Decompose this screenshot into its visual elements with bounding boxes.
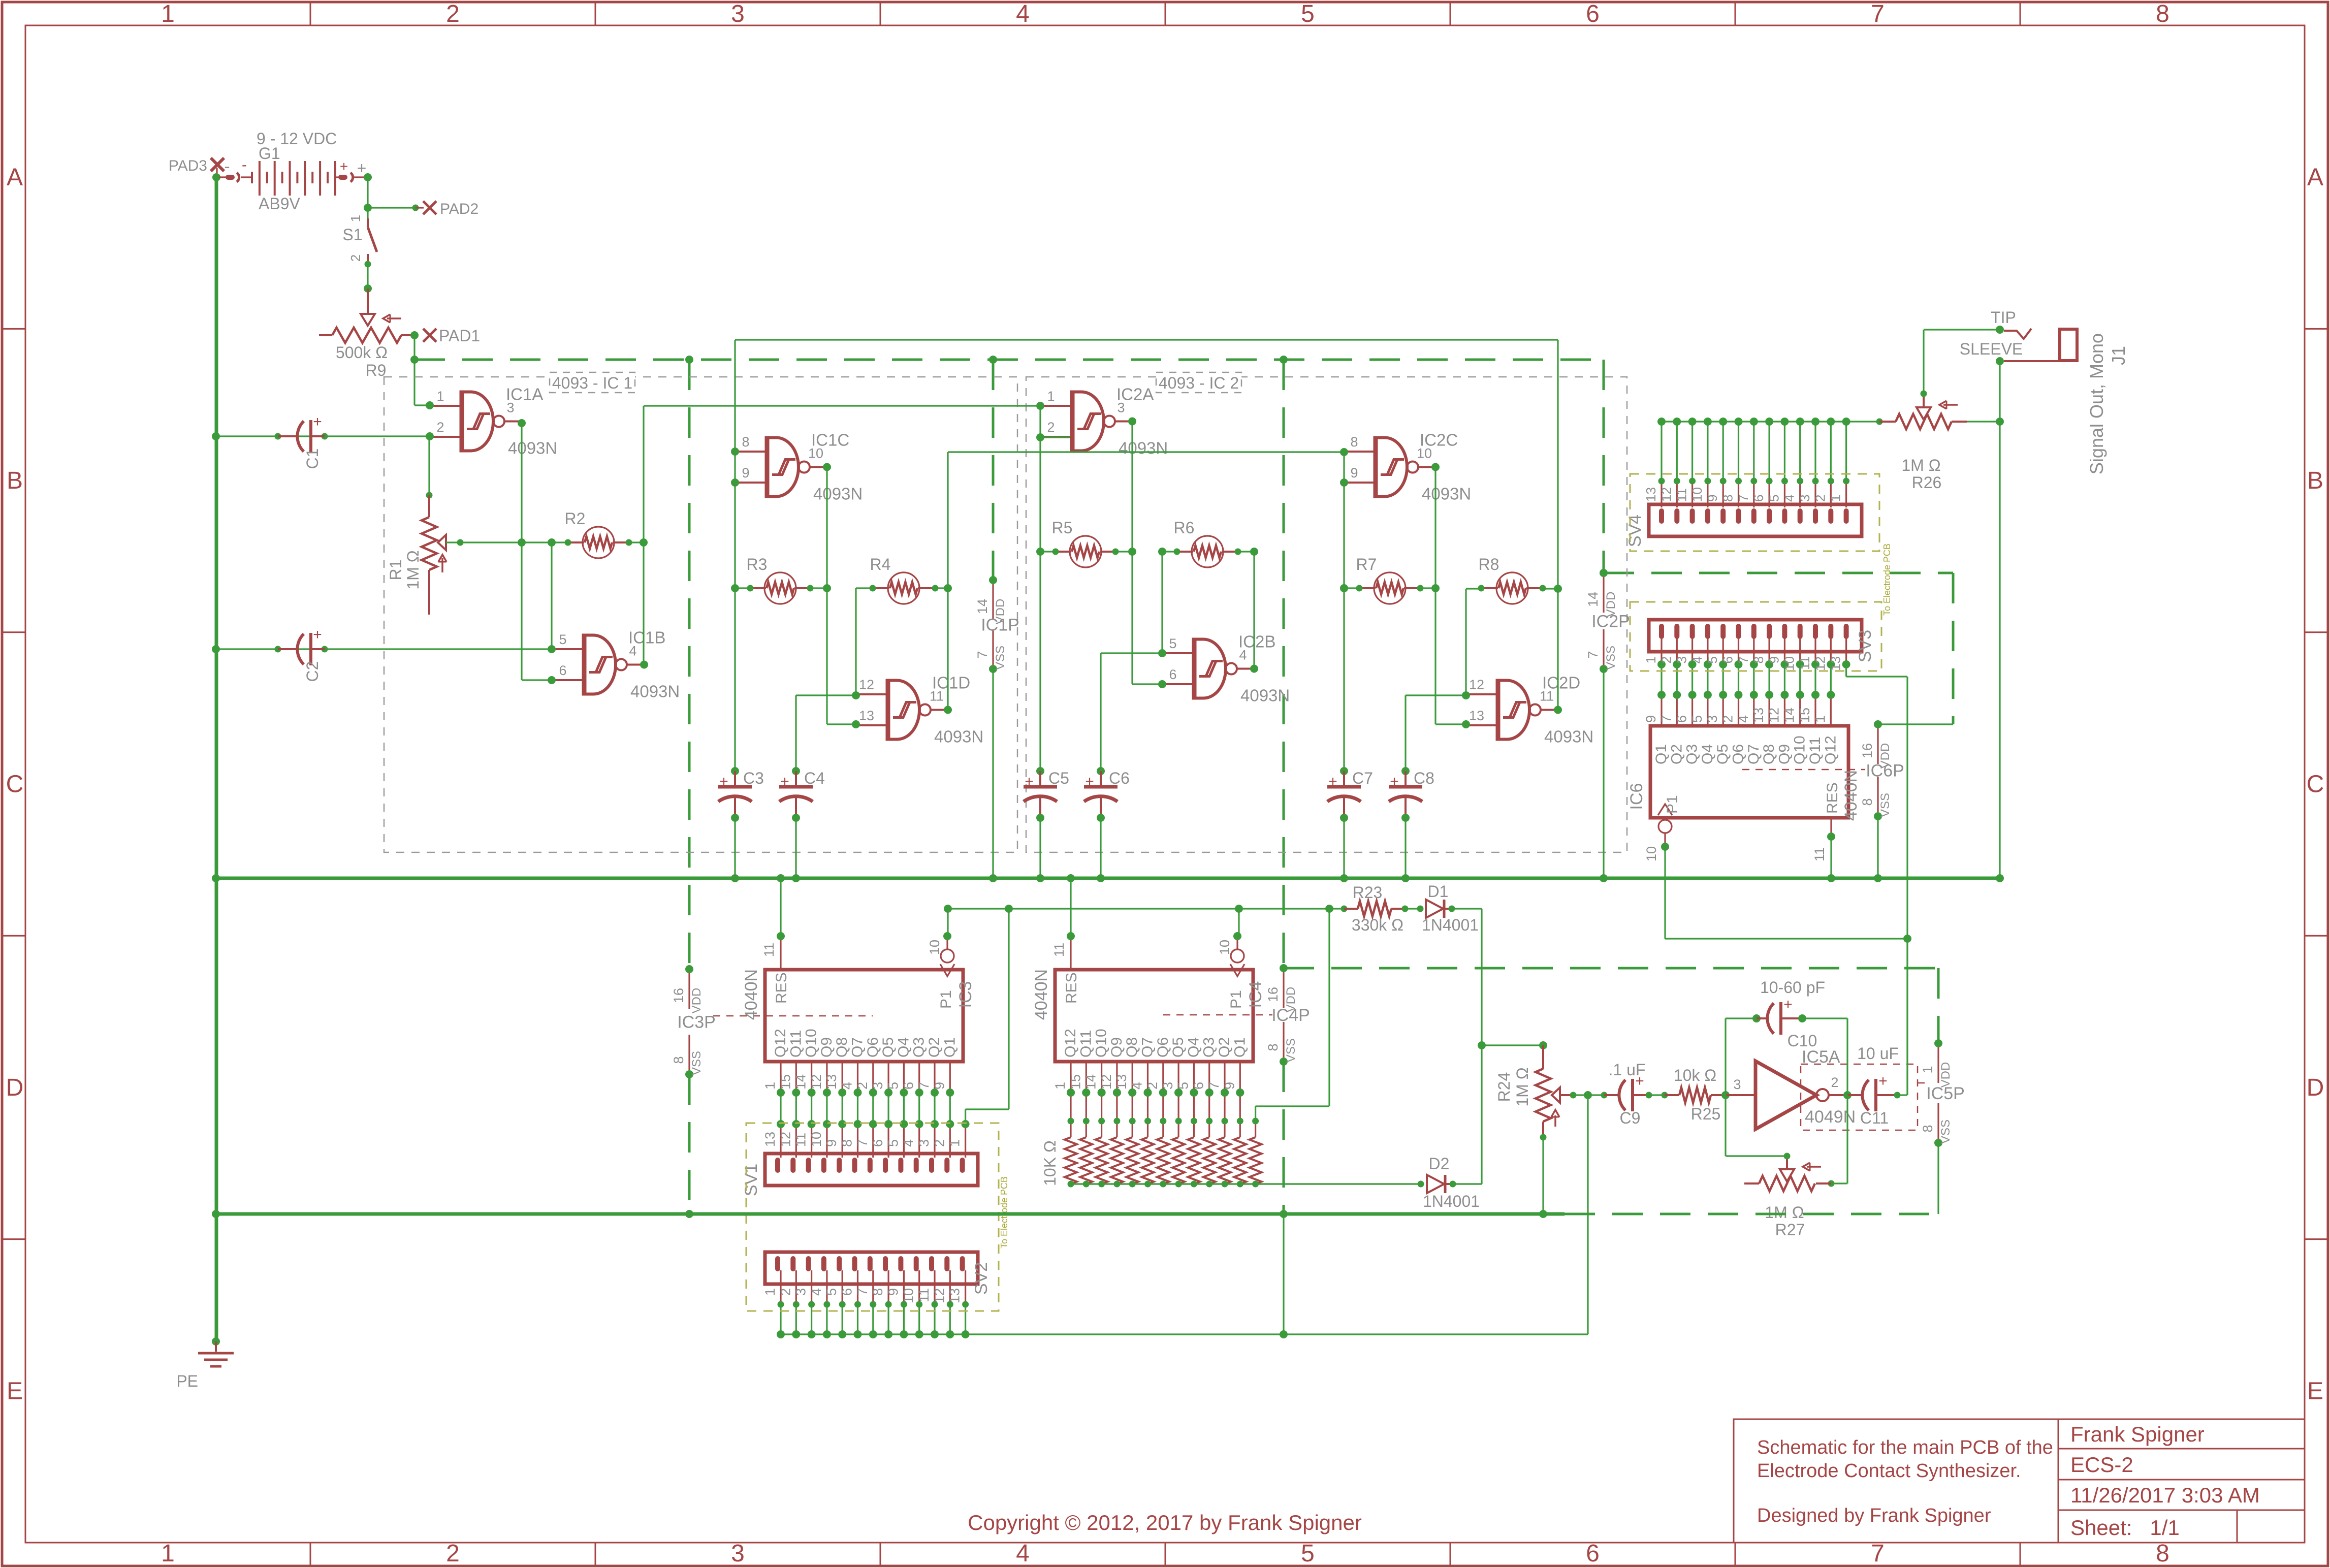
- wire ground rail to PE: [212, 1337, 220, 1346]
- svg-text:C5: C5: [1048, 769, 1069, 787]
- wire IC6P VSS to ground bus: [1877, 816, 1878, 878]
- svg-text:2: 2: [778, 1288, 793, 1296]
- svg-text:-: -: [224, 157, 230, 176]
- wire IC4 pin11 to ground bus: [1070, 878, 1071, 936]
- svg-text:C3: C3: [743, 769, 764, 787]
- svg-text:1: 1: [161, 1540, 175, 1567]
- svg-text:3: 3: [731, 1, 745, 27]
- svg-text:1: 1: [1828, 495, 1843, 502]
- svg-text:500k Ω: 500k Ω: [336, 343, 388, 362]
- svg-text:4040N: 4040N: [1032, 969, 1051, 1020]
- svg-text:4093N: 4093N: [934, 727, 983, 746]
- title block: [1734, 1419, 2305, 1543]
- wire R2 left down to IC1B pin5: [551, 542, 552, 649]
- svg-text:C2: C2: [303, 661, 322, 682]
- svg-text:330k Ω: 330k Ω: [1352, 916, 1403, 934]
- svg-text:IC4: IC4: [1246, 981, 1265, 1008]
- label 4093 - IC 2: [1156, 372, 1241, 393]
- ic IC6 P1 clock pin: [1658, 804, 1672, 815]
- svg-text:R2: R2: [565, 509, 586, 528]
- svg-text:+: +: [340, 158, 348, 174]
- svg-text:1N4001: 1N4001: [1422, 916, 1479, 934]
- svg-text:10: 10: [1689, 487, 1705, 502]
- svg-text:IC1B: IC1B: [628, 628, 665, 647]
- potentiometer R24: [1542, 1045, 1544, 1069]
- wire R7 right rail: [1420, 587, 1435, 589]
- svg-text:1: 1: [762, 1288, 778, 1296]
- svg-text:16: 16: [1860, 743, 1875, 758]
- wire IC4P VSS rail down to SV2 bus: [1283, 1214, 1284, 1334]
- svg-text:Q11: Q11: [1807, 737, 1824, 764]
- svg-text:8: 8: [742, 434, 749, 450]
- ic IC3 pin 10 P1 clock: [946, 936, 948, 949]
- svg-text:Q11: Q11: [787, 1030, 804, 1058]
- svg-text:1M Ω: 1M Ω: [1765, 1203, 1804, 1222]
- capacitor C8: [1401, 767, 1410, 775]
- dashed callout IC6P to IC6: [1742, 769, 1865, 771]
- svg-text:7: 7: [916, 1082, 932, 1090]
- svg-text:6: 6: [1586, 1540, 1600, 1567]
- svg-text:2: 2: [446, 1, 460, 27]
- svg-text:5: 5: [1766, 495, 1781, 502]
- wire VCC dashed bus top: [414, 359, 1604, 361]
- svg-text:2: 2: [446, 1540, 460, 1567]
- svg-text:13: 13: [1469, 708, 1484, 723]
- svg-text:SV4: SV4: [1625, 515, 1645, 547]
- wires SV3 to IC6: [1661, 664, 1662, 695]
- wire R5 right to IC2A out rail: [1115, 551, 1132, 552]
- svg-text:2: 2: [348, 254, 363, 262]
- svg-text:10: 10: [927, 940, 942, 955]
- wire R8 left down to IC2D pin12: [1465, 589, 1466, 695]
- dashed callout IC4P to IC4: [1163, 1014, 1272, 1016]
- svg-text:PAD1: PAD1: [439, 327, 480, 345]
- svg-text:4: 4: [1016, 1540, 1030, 1567]
- svg-text:12: 12: [859, 677, 874, 692]
- wire SV2 bus to R24 wiper node: [781, 1333, 1588, 1335]
- olive dashed box SV4 to electrode PCB: [1630, 474, 1879, 551]
- svg-text:Q6: Q6: [1155, 1037, 1171, 1058]
- svg-text:4: 4: [1016, 1, 1030, 27]
- svg-text:+: +: [1783, 996, 1793, 1013]
- svg-text:P1: P1: [1228, 990, 1244, 1009]
- svg-text:Q7: Q7: [1745, 744, 1762, 764]
- svg-text:9: 9: [1705, 495, 1720, 502]
- svg-text:Q8: Q8: [834, 1037, 850, 1058]
- wire battery plus to switch: [364, 173, 372, 181]
- svg-text:4: 4: [1736, 715, 1751, 723]
- svg-text:10: 10: [1644, 846, 1659, 861]
- connector SV2 body: [765, 1252, 978, 1284]
- svg-text:IC6: IC6: [1627, 783, 1646, 810]
- svg-text:IC2A: IC2A: [1116, 385, 1154, 404]
- svg-text:2: 2: [855, 1082, 870, 1090]
- nand gate IC1C: [765, 436, 770, 498]
- svg-text:R25: R25: [1691, 1105, 1721, 1123]
- svg-text:Q6: Q6: [1730, 744, 1747, 764]
- nand gate IC1A: [460, 391, 464, 453]
- svg-text:5: 5: [1301, 1540, 1315, 1567]
- svg-text:1: 1: [436, 389, 444, 404]
- svg-text:B: B: [2307, 467, 2323, 494]
- wire IC4P VSS to lower bus: [1283, 1062, 1285, 1214]
- svg-text:1N4001: 1N4001: [1423, 1192, 1480, 1210]
- svg-text:E: E: [2307, 1378, 2323, 1404]
- svg-text:6: 6: [901, 1082, 916, 1090]
- svg-text:15: 15: [778, 1074, 793, 1090]
- svg-text:VSS: VSS: [1878, 793, 1892, 817]
- wire 13th resistor riser to clock net: [1328, 909, 1330, 1106]
- svg-text:3: 3: [793, 1288, 809, 1296]
- svg-text:SLEEVE: SLEEVE: [1960, 340, 2023, 358]
- resistor R8: [1496, 572, 1528, 604]
- svg-text:Electrode Contact Synthesizer.: Electrode Contact Synthesizer.: [1757, 1460, 2021, 1482]
- svg-text:1: 1: [1920, 1066, 1935, 1073]
- svg-text:TIP: TIP: [1991, 308, 2016, 327]
- svg-text:5: 5: [1689, 715, 1705, 723]
- wire R2 to IC1B out: [629, 541, 644, 543]
- svg-text:11: 11: [916, 1288, 932, 1302]
- svg-text:8: 8: [840, 1139, 855, 1147]
- svg-text:1: 1: [161, 1, 175, 27]
- svg-text:Q10: Q10: [803, 1029, 820, 1058]
- nand gate IC2D: [1496, 679, 1501, 741]
- svg-text:VSS: VSS: [1284, 1038, 1298, 1063]
- svg-text:Q1: Q1: [1653, 744, 1670, 764]
- svg-text:9: 9: [742, 465, 749, 481]
- svg-text:3: 3: [1797, 495, 1812, 502]
- wire IC5A out down to R27: [1846, 1095, 1848, 1183]
- svg-text:Q4: Q4: [895, 1037, 912, 1058]
- potentiometer R27: [1816, 1182, 1831, 1185]
- svg-text:4: 4: [1130, 1082, 1145, 1090]
- svg-text:Q10: Q10: [1792, 735, 1808, 764]
- wire VCC dashed drop to IC4P: [1280, 356, 1288, 364]
- wire D1 to R24 top: [1452, 908, 1482, 909]
- wire R27 wiper to IC5A pin3 node: [1784, 1153, 1791, 1160]
- svg-text:5: 5: [1175, 1082, 1191, 1090]
- svg-text:7: 7: [975, 651, 990, 658]
- svg-text:13: 13: [1643, 487, 1658, 502]
- svg-text:7: 7: [855, 1139, 870, 1147]
- wire C11 to SV3 pin13 net: [1897, 1094, 1907, 1096]
- svg-text:1M Ω: 1M Ω: [1513, 1067, 1531, 1106]
- svg-text:1: 1: [762, 1082, 778, 1090]
- wire R3 right rail: [810, 587, 827, 589]
- wire R24 wiper to C9: [1570, 1092, 1577, 1099]
- wire SV3 pin13 to riser: [1845, 664, 1847, 677]
- wire switch to R9 wiper: [365, 261, 371, 268]
- nand gate IC1D: [886, 679, 890, 741]
- svg-text:12: 12: [778, 1132, 793, 1147]
- capacitor C4: [792, 767, 800, 775]
- wire IC5P VSS to lower bus: [1937, 1143, 1939, 1214]
- svg-text:E: E: [7, 1378, 23, 1404]
- svg-text:10: 10: [1217, 940, 1232, 955]
- svg-text:9: 9: [1766, 656, 1781, 663]
- wire IC1C out to R3 right / IC1D pin13: [823, 463, 831, 471]
- svg-text:Signal Out, Mono: Signal Out, Mono: [2086, 333, 2107, 474]
- svg-text:3: 3: [870, 1082, 885, 1090]
- ic IC3 4040N body: [765, 970, 963, 1062]
- svg-text:IC4P: IC4P: [1271, 1006, 1310, 1025]
- svg-text:4093N: 4093N: [1240, 686, 1290, 705]
- svg-text:11: 11: [1812, 847, 1827, 861]
- potentiometer R26: [1879, 421, 1896, 423]
- svg-text:4093N: 4093N: [1119, 439, 1168, 458]
- svg-text:Q3: Q3: [911, 1037, 928, 1058]
- wire lower ground bus: [216, 1212, 1565, 1216]
- svg-text:IC3P: IC3P: [677, 1013, 716, 1032]
- resistor R23: [1358, 901, 1391, 916]
- svg-text:+: +: [1878, 1073, 1888, 1090]
- svg-text:8: 8: [1751, 656, 1766, 663]
- svg-text:Sheet: 1/1: Sheet: 1/1: [2070, 1516, 2180, 1540]
- svg-text:C1: C1: [303, 449, 322, 469]
- diode D1: [1405, 908, 1420, 909]
- svg-text:4093N: 4093N: [1422, 485, 1471, 503]
- svg-text:13: 13: [1114, 1074, 1129, 1090]
- svg-text:RES: RES: [773, 972, 790, 1004]
- resistor R5: [1070, 536, 1101, 567]
- svg-text:IC1C: IC1C: [811, 431, 849, 450]
- capacitor C5: [1036, 767, 1044, 775]
- capacitor C10: [1757, 1017, 1767, 1019]
- pad PAD2: [423, 201, 436, 214]
- wire SLEEVE to jack: [1996, 357, 2004, 365]
- svg-text:4093 - IC 1: 4093 - IC 1: [552, 374, 632, 392]
- svg-text:6: 6: [840, 1288, 855, 1296]
- svg-text:J1: J1: [2108, 346, 2129, 365]
- svg-text:R26: R26: [1912, 473, 1942, 492]
- svg-text:C11: C11: [1860, 1109, 1889, 1127]
- svg-text:Q5: Q5: [880, 1037, 897, 1058]
- svg-text:Q2: Q2: [1668, 744, 1685, 764]
- svg-text:10: 10: [809, 1132, 824, 1147]
- capacitor C1: [278, 435, 296, 437]
- ic IC3 bottom pins: [780, 1062, 781, 1093]
- svg-text:13: 13: [859, 708, 874, 723]
- svg-text:C7: C7: [1352, 769, 1373, 787]
- svg-text:IC1P: IC1P: [981, 616, 1019, 635]
- wire C3 to ground bus: [734, 818, 736, 878]
- capacitor C2: [278, 648, 296, 650]
- svg-text:1M Ω: 1M Ω: [404, 550, 422, 589]
- svg-text:A: A: [2307, 164, 2323, 191]
- svg-text:4093 - IC 2: 4093 - IC 2: [1159, 374, 1239, 392]
- svg-text:16: 16: [1265, 987, 1281, 1002]
- power pins IC2P: [1603, 577, 1604, 613]
- wire sleeve rail down to ground bus: [1999, 361, 2000, 878]
- svg-text:ECS-2: ECS-2: [2070, 1453, 2133, 1477]
- nand gate IC2B: [1192, 638, 1197, 700]
- diode D2: [1418, 1181, 1424, 1188]
- svg-text:14: 14: [1083, 1074, 1099, 1090]
- svg-text:R24: R24: [1495, 1072, 1513, 1102]
- svg-text:D1: D1: [1428, 882, 1449, 901]
- wire SV4 bus to R26: [1662, 421, 1879, 422]
- svg-text:R23: R23: [1353, 883, 1383, 902]
- connector SV3 pins: [1661, 637, 1662, 664]
- svg-text:R8: R8: [1479, 555, 1499, 573]
- svg-text:11: 11: [1674, 488, 1689, 502]
- olive dashed box SV3 to electrode PCB: [1630, 602, 1881, 671]
- wire IC1B out up to IC2A pin1: [640, 661, 648, 669]
- svg-text:C4: C4: [804, 769, 825, 787]
- svg-text:IC5P: IC5P: [1926, 1084, 1965, 1103]
- svg-text:R4: R4: [870, 555, 891, 573]
- wire C8 to ground bus: [1405, 818, 1406, 878]
- power pins IC6P: [1877, 728, 1878, 764]
- nand gate IC2A: [1070, 391, 1075, 453]
- svg-text:6: 6: [870, 1139, 885, 1147]
- wire D2 to R24 top riser: [1453, 1183, 1482, 1185]
- potentiometer R1: [426, 401, 434, 409]
- svg-text:+: +: [719, 773, 728, 790]
- svg-text:8: 8: [870, 1288, 885, 1296]
- svg-text:Q4: Q4: [1699, 744, 1716, 764]
- nand gate IC2C: [1374, 436, 1378, 498]
- svg-text:7: 7: [1871, 1, 1885, 27]
- svg-text:4040N: 4040N: [1841, 770, 1861, 821]
- svg-text:12: 12: [1099, 1074, 1114, 1090]
- svg-text:5: 5: [824, 1288, 839, 1296]
- svg-text:RES: RES: [1824, 782, 1841, 814]
- ic IC4 4040N body: [1055, 970, 1253, 1062]
- ic IC6 4040N body: [1650, 726, 1848, 818]
- svg-text:1: 1: [1047, 389, 1055, 404]
- svg-text:P1: P1: [1664, 795, 1681, 814]
- svg-text:IC1D: IC1D: [932, 674, 970, 692]
- wire IC3P VSS to lower bus: [688, 1074, 691, 1214]
- wire VCC dashed drop to IC2P VDD: [1603, 360, 1605, 573]
- svg-text:IC2P: IC2P: [1591, 612, 1630, 631]
- svg-text:9: 9: [1643, 715, 1658, 723]
- svg-text:A: A: [7, 164, 23, 191]
- svg-text:4: 4: [1782, 495, 1797, 502]
- svg-text:IC6P: IC6P: [1866, 761, 1904, 781]
- svg-text:Q4: Q4: [1185, 1037, 1202, 1058]
- svg-text:7: 7: [1736, 495, 1751, 502]
- svg-text:4040N: 4040N: [742, 969, 761, 1020]
- svg-text:Q1: Q1: [941, 1037, 958, 1058]
- svg-text:6: 6: [559, 663, 566, 678]
- wire IC1D out feedback to IC2C input: [944, 706, 952, 714]
- svg-text:To Electrode PCB: To Electrode PCB: [1882, 543, 1892, 616]
- svg-text:10: 10: [901, 1288, 916, 1303]
- jack J1 tip contact: [2004, 329, 2031, 339]
- svg-text:5: 5: [1705, 656, 1720, 663]
- svg-text:3: 3: [1674, 656, 1689, 663]
- svg-text:R7: R7: [1356, 555, 1377, 573]
- svg-text:4093N: 4093N: [813, 485, 863, 503]
- svg-text:3: 3: [731, 1540, 745, 1567]
- svg-text:IC2B: IC2B: [1238, 632, 1275, 651]
- resistor R3: [764, 572, 796, 604]
- label 4093 - IC 1: [550, 372, 635, 393]
- resistor R25: [1665, 1094, 1679, 1096]
- wire IC2D feedback to IC1C input: [1554, 706, 1562, 714]
- wire C6 to IC2B pin5: [1100, 653, 1101, 771]
- ic IC4 pin 10 P1 clock: [1236, 936, 1238, 949]
- svg-text:S1: S1: [342, 226, 362, 244]
- wire lower ground bus dashed part: [1565, 1213, 1938, 1215]
- wire R8 right / IC2D out rail: [1543, 588, 1558, 589]
- svg-text:9: 9: [824, 1139, 839, 1147]
- wire C2 to IC1B pin5: [216, 648, 552, 650]
- svg-text:Q2: Q2: [926, 1037, 943, 1058]
- svg-text:2: 2: [1047, 420, 1055, 435]
- dashed box IC5P power part: [1801, 1064, 1918, 1130]
- svg-text:4093N: 4093N: [1544, 727, 1593, 746]
- svg-text:Q7: Q7: [849, 1037, 866, 1058]
- connector SV2 pins: [780, 1270, 781, 1304]
- wire IC1P VSS to ground bus: [992, 669, 994, 878]
- svg-text:8: 8: [2156, 1540, 2169, 1567]
- connector SV3 body: [1649, 620, 1862, 652]
- svg-text:Q12: Q12: [772, 1029, 789, 1058]
- wire R1 wiper to R2: [446, 541, 522, 543]
- svg-text:C9: C9: [1620, 1109, 1641, 1127]
- svg-text:6: 6: [1751, 495, 1766, 502]
- resistor R7: [1374, 572, 1406, 604]
- svg-text:1: 1: [947, 1139, 963, 1147]
- svg-text:Q9: Q9: [818, 1037, 835, 1058]
- dashed box 4093 IC1 region: [384, 377, 1017, 852]
- svg-text:7: 7: [1658, 715, 1674, 723]
- svg-text:5: 5: [885, 1139, 901, 1147]
- svg-text:7: 7: [1585, 651, 1601, 658]
- svg-text:5: 5: [1301, 1, 1315, 27]
- svg-text:+: +: [1085, 773, 1094, 790]
- wire PAD1 node down to IC1A pin1: [413, 335, 415, 405]
- svg-text:R27: R27: [1775, 1221, 1805, 1239]
- svg-text:3: 3: [916, 1139, 932, 1147]
- svg-text:10K Ω: 10K Ω: [1041, 1140, 1059, 1186]
- svg-text:12: 12: [932, 1288, 947, 1303]
- svg-text:3: 3: [1160, 1082, 1175, 1090]
- svg-text:13: 13: [762, 1132, 778, 1147]
- wire R26 wiper to TIP: [1921, 391, 1927, 397]
- svg-text:11: 11: [793, 1133, 809, 1147]
- svg-text:12: 12: [809, 1074, 824, 1090]
- svg-text:13: 13: [947, 1288, 963, 1303]
- ic IC6 top pins: [1661, 695, 1662, 726]
- svg-text:4093N: 4093N: [508, 439, 557, 458]
- svg-text:6: 6: [1586, 1, 1600, 27]
- wire R3 left rail: [735, 587, 750, 589]
- svg-text:VSS: VSS: [1939, 1119, 1953, 1144]
- wire VCC dashed drop to IC6P VDD: [1952, 573, 1955, 724]
- svg-text:4: 4: [809, 1288, 824, 1296]
- svg-text:2: 2: [932, 1139, 947, 1147]
- wire C1 to IC1A pin2: [216, 435, 430, 437]
- svg-text:AB9V: AB9V: [259, 195, 300, 213]
- svg-text:SV1: SV1: [742, 1164, 761, 1196]
- svg-text:8: 8: [2156, 1, 2169, 27]
- olive dashed box SV1/SV2 to electrode PCB: [746, 1123, 999, 1311]
- wire R6 right to IC2B out: [1238, 551, 1254, 552]
- svg-text:14: 14: [1782, 708, 1797, 723]
- svg-text:2: 2: [1720, 715, 1736, 723]
- svg-text:R1: R1: [387, 560, 405, 581]
- svg-text:10-60 pF: 10-60 pF: [1760, 978, 1825, 997]
- svg-text:6: 6: [1674, 715, 1689, 723]
- svg-text:IC1A: IC1A: [506, 385, 543, 404]
- wire IC2A input rail with R5/C5: [1039, 406, 1041, 771]
- svg-text:11: 11: [1051, 943, 1067, 957]
- battery G1: [219, 176, 230, 178]
